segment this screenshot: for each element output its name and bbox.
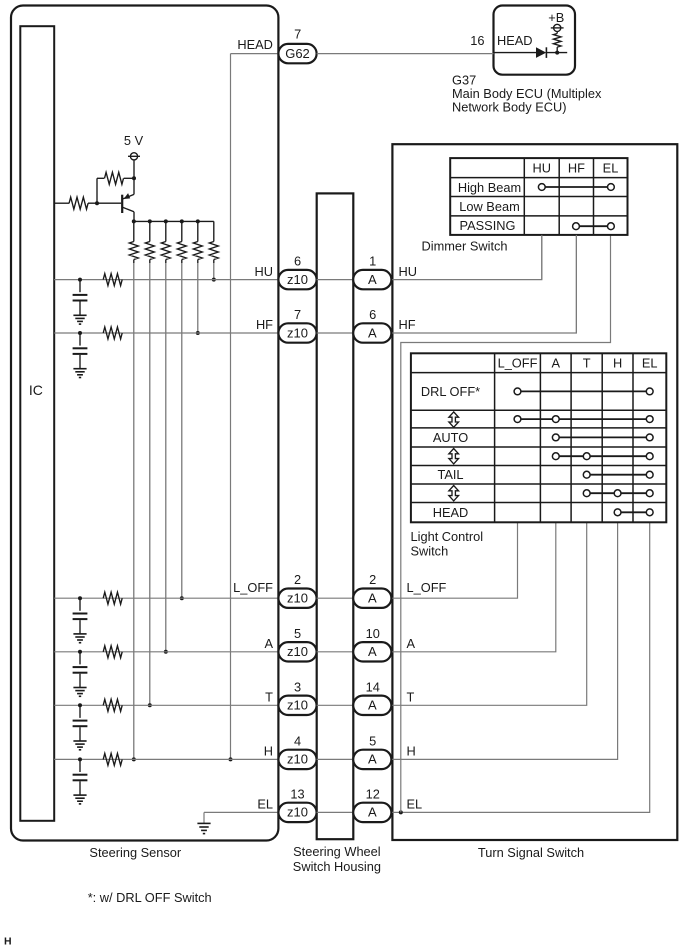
- wire H (A to switch): [392, 522, 617, 759]
- capacitor C-HF: [79, 333, 81, 346]
- svg-text:z10: z10: [287, 591, 308, 606]
- svg-text:16: 16: [470, 33, 484, 48]
- svg-text:Switch: Switch: [411, 544, 449, 559]
- svg-text:z10: z10: [287, 752, 308, 767]
- svg-text:z10: z10: [287, 325, 308, 340]
- power symbol 5V: [130, 153, 137, 160]
- svg-text:5 V: 5 V: [124, 133, 144, 148]
- svg-text:A: A: [552, 355, 561, 370]
- power symbol +B: [556, 32, 558, 34]
- junction cap node A: [78, 650, 82, 654]
- wire H (z10 to A): [317, 758, 354, 760]
- svg-text:2: 2: [369, 572, 376, 587]
- svg-text:A: A: [368, 805, 377, 820]
- svg-text:A: A: [368, 698, 377, 713]
- svg-text:2: 2: [294, 572, 301, 587]
- wire HU (z10 to A): [317, 279, 354, 281]
- svg-text:4: 4: [294, 733, 301, 748]
- contact arrow1 L_OFF-A-EL: [521, 418, 646, 420]
- svg-text:H: H: [4, 936, 12, 948]
- svg-text:6: 6: [369, 307, 376, 322]
- svg-text:A: A: [368, 591, 377, 606]
- connector A A: [353, 642, 391, 661]
- svg-text:Steering Wheel: Steering Wheel: [293, 844, 381, 859]
- svg-text:z10: z10: [287, 644, 308, 659]
- resistor in ECU: [556, 47, 558, 53]
- contact HEAD H-EL: [621, 511, 646, 513]
- svg-text:A: A: [407, 636, 416, 651]
- svg-text:IC: IC: [29, 382, 43, 398]
- svg-text:H: H: [264, 744, 273, 759]
- junction base node: [95, 201, 99, 205]
- svg-text:7: 7: [294, 307, 301, 322]
- svg-text:HEAD: HEAD: [497, 33, 533, 48]
- box: Turn Signal Switch: [392, 144, 677, 840]
- junction R6 to HU wire: [212, 278, 216, 282]
- svg-text:12: 12: [366, 786, 380, 801]
- pull-up resistor R1: [133, 221, 135, 241]
- svg-text:EL: EL: [642, 355, 658, 370]
- connector A HU: [353, 270, 391, 289]
- wire HF (A to switch): [392, 235, 576, 333]
- svg-text:10: 10: [366, 626, 380, 641]
- svg-text:7: 7: [294, 27, 301, 42]
- svg-text:L_OFF: L_OFF: [407, 580, 447, 595]
- contact PASSING HF-EL: [579, 225, 607, 227]
- contact TAIL T-EL: [590, 474, 646, 476]
- wire diode to node: [546, 52, 567, 54]
- svg-text:14: 14: [366, 679, 380, 694]
- svg-text:5: 5: [294, 626, 301, 641]
- svg-text:A: A: [368, 752, 377, 767]
- connector z10 HF: [278, 323, 316, 342]
- svg-text:HF: HF: [399, 317, 416, 332]
- svg-text:*: w/ DRL OFF Switch: *: w/ DRL OFF Switch: [88, 890, 212, 905]
- filter resistor HF: [103, 327, 122, 339]
- junction rail node 1: [132, 219, 136, 223]
- svg-text:A: A: [368, 325, 377, 340]
- svg-text:EL: EL: [603, 161, 619, 176]
- wire A (A to switch): [392, 522, 556, 652]
- capacitor C-T: [79, 705, 81, 718]
- wire EL (z10 to A): [317, 811, 354, 813]
- svg-text:Dimmer Switch: Dimmer Switch: [422, 238, 508, 253]
- wire T (z10 to A): [317, 704, 354, 706]
- svg-text:HEAD: HEAD: [433, 505, 469, 520]
- wire dimmer HF drop: [575, 235, 577, 333]
- ground EL: [197, 822, 210, 824]
- connector z10 L_OFF: [278, 589, 316, 608]
- capacitor C-A: [79, 652, 81, 665]
- wire L_OFF (A to switch): [392, 522, 517, 598]
- wire EL row (ground to z10): [204, 811, 278, 813]
- contact AUTO A-EL: [559, 436, 646, 438]
- wire T row (IC to z10): [54, 704, 278, 706]
- svg-text:T: T: [583, 355, 591, 370]
- filter resistor L_OFF: [103, 592, 122, 604]
- svg-text:HEAD: HEAD: [237, 37, 273, 52]
- svg-text:H: H: [407, 744, 416, 759]
- junction EL/dimmer: [399, 810, 403, 814]
- connector A HF: [353, 323, 391, 342]
- svg-text:13: 13: [290, 786, 304, 801]
- base resistor R-b: [54, 202, 69, 204]
- connector A L_OFF: [353, 589, 391, 608]
- junction R2 to T wire: [148, 703, 152, 707]
- wire dimmer HU drop: [541, 235, 543, 280]
- svg-text:HF: HF: [568, 161, 585, 176]
- connector A H: [353, 750, 391, 769]
- capacitor C-L_OFF: [79, 598, 81, 611]
- filter resistor A: [103, 646, 122, 658]
- IC box: [20, 26, 54, 821]
- wire L_OFF (z10 to A): [317, 597, 354, 599]
- svg-text:Network Body ECU): Network Body ECU): [452, 100, 567, 115]
- connector z10 H: [278, 750, 316, 769]
- dimmer switch table grid: [450, 158, 627, 235]
- light control switch table grid: [411, 353, 666, 522]
- svg-text:T: T: [407, 690, 415, 705]
- junction cap node T: [78, 703, 82, 707]
- svg-text:HU: HU: [399, 264, 417, 279]
- wire inside ECU: [495, 52, 537, 54]
- wire HF (z10 to A): [317, 332, 354, 334]
- svg-text:Switch Housing: Switch Housing: [293, 859, 381, 874]
- connector z10 EL: [278, 803, 316, 822]
- wire L_OFF row (IC to z10): [54, 597, 278, 599]
- junction HEAD/H: [229, 757, 233, 761]
- svg-text:TAIL: TAIL: [437, 467, 463, 482]
- svg-text:HU: HU: [533, 161, 551, 176]
- wire H row (IC to z10): [54, 758, 278, 760]
- wire 5V to node: [133, 160, 135, 178]
- junction rail node 5: [196, 219, 200, 223]
- wire A (z10 to A): [317, 651, 354, 653]
- junction 5V node: [132, 176, 136, 180]
- svg-text:L_OFF: L_OFF: [498, 355, 538, 370]
- svg-text:HU: HU: [255, 264, 273, 279]
- junction cap node L_OFF: [78, 596, 82, 600]
- box: Steering Wheel Switch Housing: [317, 193, 354, 839]
- svg-text:EL: EL: [407, 797, 423, 812]
- svg-text:Steering Sensor: Steering Sensor: [89, 845, 182, 860]
- wire A row (IC to z10): [54, 651, 278, 653]
- svg-text:+B: +B: [548, 10, 564, 25]
- transistor Q1: [121, 195, 123, 213]
- pull-up resistor R2: [149, 221, 151, 241]
- junction R3 to A wire: [164, 650, 168, 654]
- box: Steering Sensor: [11, 6, 278, 841]
- pull-up resistor R4: [181, 221, 183, 241]
- svg-text:1: 1: [369, 254, 376, 269]
- pull-up resistor R6: [213, 221, 215, 241]
- connector z10 A: [278, 642, 316, 661]
- svg-text:L_OFF: L_OFF: [233, 580, 273, 595]
- connector A T: [353, 696, 391, 715]
- svg-text:HF: HF: [256, 317, 273, 332]
- svg-text:Light Control: Light Control: [411, 529, 484, 544]
- svg-text:z10: z10: [287, 698, 308, 713]
- svg-text:A: A: [264, 636, 273, 651]
- box: Main Body ECU: [494, 6, 576, 75]
- junction cap node H: [78, 757, 82, 761]
- connector A EL: [353, 803, 391, 822]
- junction node +B/diode: [555, 51, 559, 55]
- junction R1 to H wire: [132, 757, 136, 761]
- svg-text:6: 6: [294, 254, 301, 269]
- resistor bank rail: [134, 220, 214, 222]
- svg-text:DRL OFF*: DRL OFF*: [421, 384, 480, 399]
- svg-text:PASSING: PASSING: [460, 218, 516, 233]
- junction cap node HU: [78, 278, 82, 282]
- junction rail node 4: [180, 219, 184, 223]
- diode D1: [536, 47, 546, 58]
- pull-up resistor R3: [165, 221, 167, 241]
- wire T (A to switch): [392, 522, 587, 705]
- svg-text:T: T: [265, 690, 273, 705]
- svg-text:Low Beam: Low Beam: [459, 199, 519, 214]
- filter resistor HU: [103, 274, 122, 286]
- svg-text:High Beam: High Beam: [458, 180, 521, 195]
- wire HU (A to switch): [392, 235, 542, 280]
- connector G62: [278, 44, 316, 63]
- svg-text:A: A: [368, 644, 377, 659]
- light row arrow 1: [449, 412, 459, 427]
- wire EL (A to switch): [392, 522, 650, 812]
- wire HEAD horizontal (sensor to G62): [231, 53, 279, 55]
- svg-text:A: A: [368, 272, 377, 287]
- svg-text:5: 5: [369, 733, 376, 748]
- svg-text:z10: z10: [287, 805, 308, 820]
- contact DRL OFF L_OFF-EL: [521, 390, 646, 392]
- wire feedback left down: [96, 178, 98, 203]
- contact arrow3 T-H-EL: [590, 492, 646, 494]
- contact arrow2 A-T-EL: [559, 455, 646, 457]
- junction cap node HF: [78, 331, 82, 335]
- junction R4 to L_OFF wire: [180, 596, 184, 600]
- wire EL ground drop: [203, 812, 205, 823]
- svg-text:EL: EL: [257, 797, 273, 812]
- contact High Beam HU-EL: [545, 186, 607, 188]
- junction rail node 2: [148, 219, 152, 223]
- wire G62 to ECU: [317, 53, 494, 55]
- light row arrow 3: [449, 486, 459, 501]
- svg-text:H: H: [613, 355, 622, 370]
- connector z10 T: [278, 696, 316, 715]
- capacitor C-H: [79, 759, 81, 772]
- wire HEAD vertical (down to H row): [230, 54, 232, 760]
- junction rail node 3: [164, 219, 168, 223]
- junction R5 to HF wire: [196, 331, 200, 335]
- wire dimmer EL down-route: [401, 235, 611, 813]
- filter resistor T: [103, 699, 122, 711]
- capacitor C-HU: [79, 280, 81, 293]
- pull-up resistor R5: [197, 221, 199, 241]
- svg-text:Turn Signal Switch: Turn Signal Switch: [478, 845, 584, 860]
- svg-text:G62: G62: [285, 46, 310, 61]
- wire HU row (IC to z10): [54, 279, 278, 281]
- svg-text:AUTO: AUTO: [433, 430, 468, 445]
- svg-text:3: 3: [294, 679, 301, 694]
- feedback resistor R-fb: [124, 177, 134, 179]
- light row arrow 2: [449, 449, 459, 464]
- svg-text:z10: z10: [287, 272, 308, 287]
- wire HF row (IC to z10): [54, 332, 278, 334]
- connector z10 HU: [278, 270, 316, 289]
- filter resistor H: [103, 753, 122, 765]
